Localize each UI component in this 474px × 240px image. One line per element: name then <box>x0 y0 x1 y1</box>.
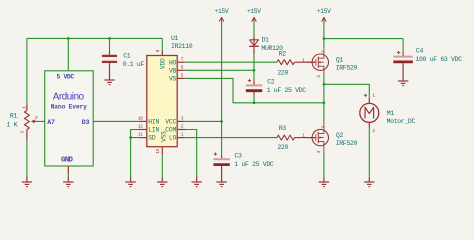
svg-text:3: 3 <box>181 116 184 122</box>
svg-text:1 uF 25 VDC: 1 uF 25 VDC <box>267 87 307 94</box>
wire R3 to Q2 gate <box>294 137 315 139</box>
svg-text:3: 3 <box>316 150 322 153</box>
node VCC junction <box>220 120 223 123</box>
pin 5 VS <box>169 73 185 83</box>
wire VB pin to node <box>185 69 254 71</box>
label 1 K <box>7 122 18 129</box>
wire C3 to ground <box>221 166 223 182</box>
label Nano Every <box>51 103 87 110</box>
svg-text:A7: A7 <box>47 119 55 126</box>
power +15V (bridge) <box>317 8 331 32</box>
wire +15V to D1 <box>253 32 255 40</box>
capacitor C2 plus <box>248 79 251 82</box>
label C1 <box>123 52 131 59</box>
wire C4 to ground <box>402 63 404 81</box>
svg-text:10: 10 <box>138 116 143 122</box>
power +15V (D1) <box>247 8 261 32</box>
svg-text:Q2: Q2 <box>336 132 344 139</box>
label C4 <box>416 47 424 54</box>
wire +15V to VCC and C3 <box>221 32 223 156</box>
label R1 <box>10 113 18 120</box>
label R3 <box>279 125 287 132</box>
label M1 value <box>387 118 416 125</box>
pin GND <box>61 156 73 164</box>
transistor Q1 IRF520 <box>306 49 328 78</box>
svg-text:3: 3 <box>316 75 322 78</box>
ground U1 VSS <box>157 182 167 187</box>
label Q2 value <box>336 140 358 147</box>
wire Q1 drain to +15V <box>323 39 325 49</box>
wire +15V rail to C4 <box>324 38 403 40</box>
label Arduino <box>53 91 85 102</box>
svg-text:Nano Every: Nano Every <box>51 103 87 110</box>
transistor Q2 IRF520 <box>306 124 328 153</box>
svg-text:7: 7 <box>181 56 184 62</box>
label U1 <box>171 35 179 42</box>
capacitor C3 <box>213 155 229 164</box>
wire 5V rail <box>27 37 162 39</box>
svg-text:R3: R3 <box>279 125 287 132</box>
label R2 value <box>277 69 288 76</box>
node LIN/SD junction <box>129 136 132 139</box>
svg-text:VB: VB <box>169 67 177 74</box>
label C4 value <box>416 56 463 63</box>
svg-text:2: 2 <box>372 128 375 134</box>
ground LIN/SD <box>125 182 135 187</box>
pin 1 LO <box>169 132 185 142</box>
svg-text:LO: LO <box>169 135 177 142</box>
svg-text:VDD: VDD <box>159 58 166 69</box>
svg-text:SD: SD <box>148 135 156 142</box>
label C3 value <box>234 161 274 168</box>
label D1 <box>262 37 270 44</box>
svg-text:Motor_DC: Motor_DC <box>387 118 416 125</box>
wire half-bridge to motor <box>324 84 369 98</box>
svg-text:+15V: +15V <box>247 8 261 15</box>
svg-text:1 uF 25 VDC: 1 uF 25 VDC <box>234 161 274 168</box>
pin 13 VSS <box>155 131 168 155</box>
svg-text:Arduino: Arduino <box>53 91 85 102</box>
node 5V rail / C1 junction <box>108 37 111 40</box>
sheet Arduino Nano Every <box>45 71 93 166</box>
ground Q2 <box>319 182 329 187</box>
svg-text:IRF520: IRF520 <box>336 140 358 147</box>
label IR2110 <box>171 43 193 50</box>
svg-text:LIN: LIN <box>148 127 159 134</box>
svg-text:M1: M1 <box>387 110 395 117</box>
pin 2 COM <box>165 124 185 134</box>
svg-text:Q1: Q1 <box>336 57 344 64</box>
label R2 <box>279 50 287 57</box>
pin 12 LIN <box>138 124 160 134</box>
diode D1 <box>249 40 259 55</box>
capacitor C4 plus <box>397 51 400 54</box>
ground motor <box>364 182 374 187</box>
wire +15V arrow to rail <box>323 32 325 39</box>
svg-text:5: 5 <box>181 73 184 79</box>
capacitor C2 <box>246 85 262 90</box>
label C2 value <box>267 87 307 94</box>
wire VCC pin to +15V <box>185 120 221 122</box>
wire VSS to ground <box>161 155 163 182</box>
wire R1 wiper to Arduino A7 <box>38 120 45 122</box>
svg-text:IRF520: IRF520 <box>336 64 358 71</box>
pin 9 VDD <box>155 49 166 69</box>
potentiometer R1 <box>19 104 38 140</box>
svg-text:220: 220 <box>277 144 288 151</box>
wire VS pin to bus <box>185 78 324 102</box>
svg-text:HIN: HIN <box>148 119 159 126</box>
node C2/VS junction <box>253 102 256 105</box>
svg-text:100 uF 63 VDC: 100 uF 63 VDC <box>416 56 463 63</box>
svg-text:VCC: VCC <box>165 119 176 126</box>
node half-bridge / motor junction <box>323 83 326 86</box>
wire 5V rail to C1 <box>109 38 111 54</box>
resistor R2 <box>277 57 305 64</box>
wire +15V rail down to C4 <box>402 39 404 56</box>
svg-text:2: 2 <box>35 115 38 121</box>
svg-text:2: 2 <box>181 124 184 130</box>
wire motor to ground <box>368 128 370 182</box>
svg-text:0.1 uF: 0.1 uF <box>123 61 145 68</box>
label Q2 <box>336 132 344 139</box>
wire LIN/SD to ground <box>130 138 132 182</box>
capacitor C1 <box>102 56 117 62</box>
svg-text:U1: U1 <box>171 35 179 42</box>
ground R1 <box>22 182 32 187</box>
ground C4 <box>398 81 408 86</box>
power +15V (VCC) <box>215 8 229 32</box>
svg-text:+15V: +15V <box>215 8 229 15</box>
label MUR120 <box>261 45 283 52</box>
svg-text:D1: D1 <box>262 37 270 44</box>
ground Arduino <box>63 182 73 187</box>
wire 5V rail to Arduino 5VDC pin <box>67 38 69 70</box>
label 0.1 uF <box>123 61 145 68</box>
node VB/D1/C2 junction <box>253 69 256 72</box>
ground C1 <box>104 80 114 85</box>
label Q1 value <box>336 64 358 71</box>
wire R1 bottom to ground <box>26 140 28 182</box>
node +15V rail junction <box>323 37 326 40</box>
svg-text:9: 9 <box>155 49 161 52</box>
svg-text:+15V: +15V <box>317 8 331 15</box>
svg-text:1 K: 1 K <box>7 122 18 129</box>
wire LIN to ground bus <box>131 130 139 138</box>
wire D1 to VB node <box>253 54 255 70</box>
svg-text:HO: HO <box>169 59 177 66</box>
pin 10 HIN <box>138 116 160 126</box>
pin D3 <box>82 119 90 126</box>
svg-text:C2: C2 <box>267 78 275 85</box>
svg-text:13: 13 <box>155 148 161 153</box>
svg-text:D3: D3 <box>82 119 90 126</box>
ground COM <box>192 182 202 187</box>
svg-text:R1: R1 <box>10 113 18 120</box>
wire LO to R3 <box>185 137 277 139</box>
svg-text:11: 11 <box>138 132 143 138</box>
pin 7 HO <box>169 56 185 66</box>
wire SD to ground bus <box>131 137 139 139</box>
pin 3 VCC <box>165 116 185 126</box>
svg-text:1: 1 <box>372 93 375 99</box>
resistor R3 <box>277 133 305 140</box>
wire C1 to ground <box>109 63 111 80</box>
pin A7 <box>47 119 55 126</box>
capacitor C4 <box>393 57 413 62</box>
wire COM to ground <box>185 130 197 183</box>
label R3 value <box>277 144 288 151</box>
svg-text:COM: COM <box>165 127 176 134</box>
svg-text:C1: C1 <box>123 52 131 59</box>
wire D3 to HIN <box>93 120 139 122</box>
label C3 <box>234 153 242 160</box>
label 5 VDC <box>56 74 74 81</box>
svg-text:1: 1 <box>181 132 184 138</box>
pin 6 VB <box>169 64 185 74</box>
capacitor C3 plus <box>214 152 217 155</box>
motor M1 <box>360 93 379 135</box>
label Q1 <box>336 57 344 64</box>
svg-text:R2: R2 <box>279 50 287 57</box>
svg-text:C4: C4 <box>416 47 424 54</box>
wire Q1 source to Q2 drain <box>323 76 325 124</box>
wire C2 to VS bus <box>253 92 255 103</box>
pin 11 SD <box>138 132 156 142</box>
svg-text:220: 220 <box>277 69 288 76</box>
wire HO to R2 <box>185 61 277 63</box>
label M1 <box>387 110 395 117</box>
svg-text:C3: C3 <box>234 153 242 160</box>
wire 5V rail down to R1 <box>26 38 28 104</box>
svg-text:GND: GND <box>61 156 73 164</box>
node VS bus / half-bridge junction <box>323 102 326 105</box>
node 5V rail / Arduino 5VDC junction <box>67 37 70 40</box>
op-amp U1 IR2110 body <box>147 56 177 147</box>
label C2 <box>267 78 275 85</box>
wire Arduino GND pin <box>67 166 69 182</box>
wire 5V rail to VDD pin 9 <box>161 38 163 50</box>
svg-text:12: 12 <box>138 124 143 130</box>
svg-text:IR2110: IR2110 <box>171 43 193 50</box>
svg-text:5 VDC: 5 VDC <box>56 74 74 81</box>
wire R2 to Q1 gate <box>294 61 315 63</box>
svg-text:VS: VS <box>169 76 177 83</box>
svg-text:3: 3 <box>19 131 25 134</box>
ground C3 <box>216 182 226 187</box>
svg-text:6: 6 <box>181 64 184 70</box>
wire VB node to C2 <box>253 70 255 84</box>
wire Q2 source to ground <box>323 151 325 182</box>
